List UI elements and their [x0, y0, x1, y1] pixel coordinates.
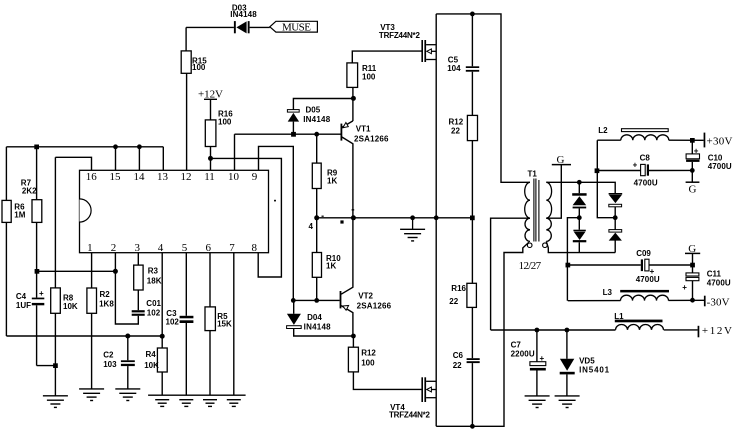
svg-text:2SA1266: 2SA1266 [357, 301, 392, 310]
svg-text:1K8: 1K8 [99, 300, 114, 309]
wire [138, 147, 140, 171]
G bar transformer [552, 164, 571, 166]
svg-text:10K: 10K [144, 361, 159, 370]
speck inside IC [274, 200, 276, 202]
node pin15 top [113, 144, 118, 149]
capacitor C01 [132, 310, 145, 316]
node ground tap [410, 215, 415, 220]
wire [36, 305, 38, 365]
svg-text:TRFZ44N*2: TRFZ44N*2 [389, 410, 431, 419]
svg-text:G: G [688, 243, 696, 255]
svg-text:22: 22 [451, 126, 460, 135]
svg-text:+30V: +30V [707, 135, 733, 147]
svg-text:9: 9 [252, 171, 258, 183]
transistor Q VT1 [341, 123, 349, 141]
ground (R8/C4) [43, 396, 68, 408]
svg-text:16: 16 [86, 171, 98, 183]
capacitor C3 [180, 316, 194, 323]
svg-text:+: + [694, 147, 699, 156]
wire +12V riser [491, 218, 530, 330]
svg-text:C01: C01 [146, 299, 161, 308]
wire top rail [436, 14, 530, 182]
svg-text:G: G [557, 154, 565, 166]
wire [471, 307, 473, 358]
wire [352, 99, 354, 122]
inductor L1 [615, 320, 664, 330]
wire [36, 147, 38, 200]
node R9/R10 [314, 215, 319, 220]
svg-text:22: 22 [453, 361, 462, 370]
wire [210, 147, 212, 171]
wire [209, 331, 211, 396]
wire [566, 374, 568, 396]
capacitor C4 [32, 298, 45, 306]
wire VT1 collector [342, 137, 353, 218]
wire [614, 241, 616, 253]
wire [692, 281, 694, 301]
diode bridge D-TR [609, 193, 623, 207]
wire [536, 371, 538, 396]
wire [352, 87, 354, 98]
svg-text:100: 100 [361, 359, 375, 368]
wire [293, 299, 339, 301]
capacitor C11 [686, 273, 699, 281]
node AC top [577, 180, 582, 185]
node -30V tap [566, 263, 571, 268]
svg-text:10: 10 [228, 171, 240, 183]
diode bridge D-BR [609, 230, 622, 241]
node C09/C11 [690, 263, 695, 268]
svg-text:C3: C3 [166, 309, 177, 318]
wire [234, 134, 236, 170]
node VT1/VT2 collectors [351, 215, 356, 220]
wire snubber chain [471, 14, 473, 66]
ground (VD5) [555, 396, 580, 408]
resistor R3 [134, 265, 143, 290]
svg-text:+: + [650, 267, 655, 276]
svg-text:L3: L3 [603, 288, 613, 297]
wire [161, 372, 163, 395]
node D05/pin10 [291, 132, 296, 137]
terminal +12V [698, 326, 700, 338]
svg-text:C8: C8 [640, 153, 651, 162]
svg-text:15: 15 [110, 171, 122, 183]
wire [471, 363, 473, 426]
svg-text:1M: 1M [14, 211, 25, 220]
svg-text:100: 100 [192, 63, 206, 72]
wire [186, 26, 234, 28]
svg-text:R12: R12 [361, 348, 376, 357]
speck tick [322, 216, 324, 217]
capacitor C5 [466, 66, 479, 71]
svg-text:12: 12 [181, 171, 192, 183]
svg-text:11: 11 [204, 171, 215, 183]
svg-text:C2: C2 [103, 351, 114, 360]
svg-text:IN4148: IN4148 [304, 322, 332, 331]
wire [352, 336, 354, 347]
resistor R10 [312, 253, 321, 278]
wire [211, 158, 282, 277]
wire [649, 169, 692, 171]
wire [161, 253, 163, 348]
wire [691, 162, 693, 182]
resistor R5 [205, 307, 215, 331]
capacitor C2 [121, 360, 135, 366]
transformer T1 [525, 179, 552, 248]
svg-text:-30V: -30V [707, 296, 730, 308]
wire [578, 242, 580, 252]
wire C09 line [568, 264, 641, 266]
node -30V [690, 298, 695, 303]
wire [649, 264, 693, 266]
svg-text:1K: 1K [327, 176, 337, 185]
node pin2 [113, 269, 118, 274]
svg-text:100: 100 [218, 118, 232, 127]
node VT2 emitter/R12 [351, 334, 356, 339]
wire [185, 253, 187, 316]
wire [235, 133, 341, 135]
svg-text:IN4148: IN4148 [303, 115, 331, 124]
resistor R8 [51, 288, 61, 313]
resistor R9 [312, 163, 321, 188]
wire [37, 365, 56, 367]
svg-text:IN5401: IN5401 [579, 365, 610, 374]
resistor R16 [205, 120, 216, 147]
svg-text:1K: 1K [326, 261, 336, 270]
svg-text:L2: L2 [598, 126, 608, 135]
svg-text:102: 102 [147, 308, 161, 317]
wire [54, 157, 56, 288]
svg-text:2200U: 2200U [511, 349, 535, 358]
wire [5, 147, 7, 201]
svg-text:2SA1266: 2SA1266 [354, 134, 389, 143]
svg-text:10K: 10K [63, 302, 78, 311]
terminal +30V [704, 133, 706, 148]
svg-text:R3: R3 [148, 266, 159, 275]
wire [578, 218, 580, 230]
capacitor C10 [686, 154, 699, 162]
diode D05 [287, 110, 299, 122]
wire [292, 122, 294, 135]
wire +30V tap riser [597, 140, 615, 218]
wire [316, 218, 318, 253]
node pin14 top [137, 144, 142, 149]
svg-text:102: 102 [166, 318, 180, 327]
wire [6, 335, 162, 337]
svg-text:+12V: +12V [198, 89, 223, 101]
capacitor C6 [467, 358, 480, 363]
svg-text:15K: 15K [217, 319, 232, 328]
svg-text:22: 22 [449, 297, 458, 306]
speck tick [352, 209, 355, 210]
wire [614, 218, 616, 230]
ground (center) [400, 218, 425, 241]
diode D04 [287, 314, 302, 329]
wire [293, 300, 295, 313]
svg-text:G: G [689, 184, 697, 196]
svg-text:IN4148: IN4148 [230, 10, 257, 19]
terminal -30V [704, 296, 706, 307]
node R10 bottom [314, 298, 319, 303]
node R11/D05 [351, 96, 356, 101]
wire [115, 253, 138, 324]
wire [316, 277, 318, 300]
wire [137, 253, 139, 265]
wire VT2 collector [341, 218, 353, 294]
resistor R4 [157, 348, 167, 372]
svg-text:+: + [682, 283, 687, 292]
resistor R11 [347, 63, 358, 88]
ground (R2) [79, 389, 104, 401]
ground (C2) [115, 389, 140, 401]
diode bridge D-TL [572, 193, 586, 208]
wire [316, 189, 318, 218]
capacitor C09 [641, 259, 649, 271]
resistor R12 22 [467, 115, 477, 140]
wire secondary top rail [546, 182, 615, 193]
svg-text:VT1: VT1 [356, 124, 371, 133]
wire [259, 146, 294, 300]
resistor R7 [32, 200, 42, 223]
wire [578, 208, 580, 217]
svg-text:R16: R16 [451, 284, 466, 293]
wire [210, 100, 212, 120]
wire L2 right [669, 139, 704, 141]
wire L3 line [568, 300, 621, 302]
svg-text:7: 7 [229, 242, 235, 254]
svg-text:100: 100 [362, 72, 376, 81]
wire [294, 329, 354, 336]
wire [91, 253, 93, 288]
svg-text:4700U: 4700U [634, 178, 658, 187]
wire secondary bottom [546, 241, 615, 252]
capacitor C7 [530, 362, 546, 371]
svg-text:103: 103 [103, 360, 117, 369]
ground rail (pins 4-7) [148, 395, 246, 406]
MOSFET VT3 [421, 40, 436, 62]
svg-text:L1: L1 [614, 312, 624, 321]
diode bridge D-BL [573, 230, 587, 243]
svg-text:6: 6 [206, 242, 212, 254]
svg-text:8: 8 [252, 242, 258, 254]
svg-text:MUSE: MUSE [282, 22, 311, 34]
wire C11 column [692, 253, 694, 273]
wire C8 line [597, 170, 641, 172]
speck square near VT1 collector [340, 220, 343, 223]
wire [91, 313, 93, 388]
svg-text:18K: 18K [147, 276, 162, 285]
wire VT3-VT4 drain-source rail [435, 14, 437, 426]
resistor R12 100 [348, 347, 358, 372]
svg-text:3: 3 [135, 242, 141, 254]
node VD5 tap [565, 328, 570, 333]
power +12V bar [204, 98, 217, 100]
wire [55, 157, 91, 170]
diode D03 [234, 21, 250, 33]
diode VD5 [560, 359, 575, 375]
wire bridge mid left [567, 218, 579, 301]
wire [293, 99, 353, 110]
wire [250, 26, 270, 28]
wire VT1 emitter [342, 121, 353, 128]
svg-text:12/27: 12/27 [519, 260, 542, 272]
wire [162, 147, 164, 171]
wire C7 stem [536, 330, 538, 362]
svg-text:+: + [39, 289, 44, 298]
wire [137, 290, 139, 310]
wire gate VT3 [352, 51, 421, 63]
wire [186, 73, 188, 170]
wire VT2 emitter [341, 306, 353, 336]
node chain/center-tap [470, 216, 475, 221]
wire +12V line [491, 329, 616, 331]
wire [185, 323, 187, 395]
node C5 top [470, 12, 475, 17]
svg-text:4: 4 [309, 222, 314, 231]
wire [6, 146, 163, 148]
node D04/pin9 [291, 298, 296, 303]
resistor R6 [2, 200, 11, 222]
wire bridge left column [578, 182, 580, 193]
svg-text:2K2: 2K2 [22, 186, 37, 195]
wire bridge right column [614, 207, 616, 218]
node R7 top [34, 145, 39, 150]
svg-text:C4: C4 [16, 292, 27, 301]
svg-text:1UF: 1UF [16, 301, 31, 310]
wire [5, 222, 7, 336]
svg-text:VT2: VT2 [358, 292, 373, 301]
wire C10 [691, 140, 693, 154]
inductor L2 [621, 129, 669, 141]
node C2 [125, 334, 130, 339]
G bar C09 [685, 252, 700, 254]
wire [209, 253, 211, 307]
wire [127, 336, 129, 360]
node R16/pin11 [208, 156, 213, 161]
node bridge plus [613, 215, 618, 220]
svg-text:+12V: +12V [702, 325, 732, 337]
node R7/C4 [35, 269, 40, 274]
svg-text:4700U: 4700U [707, 278, 731, 287]
capacitor C8 [641, 164, 649, 175]
svg-text:R12: R12 [449, 117, 464, 126]
wire [233, 253, 235, 396]
node C8/C10 [690, 168, 695, 173]
svg-text:104: 104 [447, 64, 461, 73]
wire [115, 147, 117, 171]
svg-text:R4: R4 [146, 350, 157, 359]
inductor L3 [620, 290, 669, 301]
node C4/R8 ground [53, 363, 58, 368]
svg-text:4700U: 4700U [708, 162, 732, 171]
svg-text:+: + [633, 161, 638, 170]
wire [36, 222, 38, 297]
node R9 top [314, 132, 319, 137]
IC U1 16-pin [80, 170, 269, 252]
node C7 tap [535, 328, 540, 333]
svg-text:VD5: VD5 [579, 356, 595, 365]
node center rail [434, 215, 439, 220]
svg-text:14: 14 [134, 171, 146, 183]
transistor Q VT2 [340, 291, 349, 310]
node +30V tap [595, 168, 600, 173]
svg-text:C7: C7 [511, 340, 522, 349]
svg-text:1: 1 [87, 242, 93, 254]
svg-text:R2: R2 [100, 290, 111, 299]
svg-text:D04: D04 [307, 313, 322, 322]
svg-text:+: + [540, 354, 545, 363]
node pin4/R4 [160, 334, 165, 339]
wire [316, 134, 318, 163]
wire [317, 217, 473, 219]
wire bottom rail [436, 242, 529, 426]
wire [471, 72, 473, 116]
wire secondary center tap to G [546, 165, 561, 219]
node bridge minus [577, 215, 582, 220]
svg-text:5: 5 [182, 242, 188, 254]
ground (C7) [525, 396, 550, 408]
resistor R16 22 [467, 283, 477, 307]
MOSFET VT4 [421, 377, 436, 402]
net flag MUSE [270, 21, 318, 32]
resistor R2 [87, 288, 97, 313]
wire [37, 270, 116, 272]
svg-text:D05: D05 [306, 106, 321, 115]
svg-text:TRFZ44N*2: TRFZ44N*2 [379, 31, 421, 40]
wire [669, 299, 705, 301]
svg-text:4700U: 4700U [636, 275, 660, 284]
resistor R15 [181, 51, 191, 73]
wire [471, 141, 473, 284]
svg-text:13: 13 [157, 171, 169, 183]
svg-text:C09: C09 [636, 249, 651, 258]
wire [54, 313, 56, 395]
node C6 bottom [470, 424, 475, 429]
wire [353, 372, 421, 390]
wire VD5 stem [566, 330, 568, 359]
wire [185, 27, 187, 51]
svg-text:T1: T1 [528, 169, 538, 178]
svg-text:C6: C6 [453, 351, 464, 360]
wire [127, 366, 129, 389]
svg-text:C11: C11 [707, 269, 722, 278]
svg-text:4: 4 [158, 242, 164, 254]
node L2/+30V [690, 138, 695, 143]
wire L2 left [597, 139, 621, 141]
wire [664, 329, 698, 331]
svg-text:2: 2 [111, 242, 117, 254]
G bar C10 [686, 181, 700, 183]
